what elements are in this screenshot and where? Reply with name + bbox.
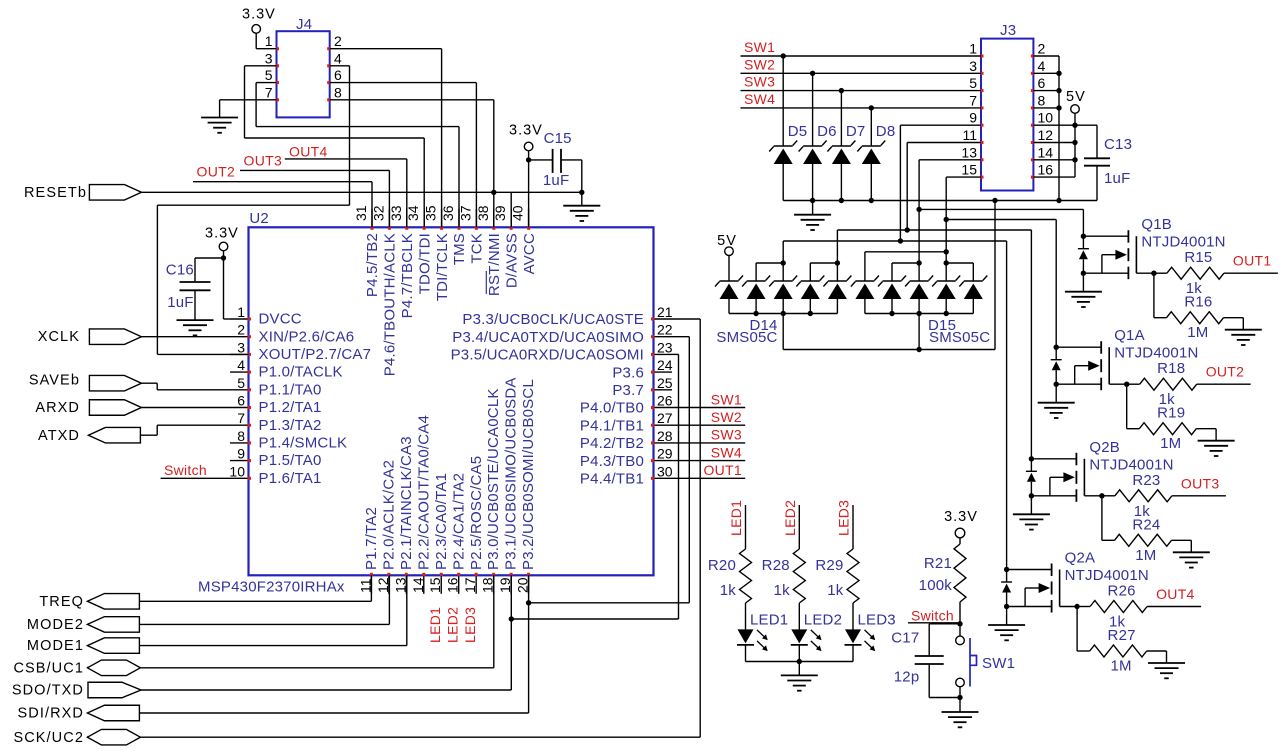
SW1 label — [982, 655, 1015, 672]
J4 pin numbers — [265, 33, 342, 101]
svg-text:30: 30 — [657, 463, 673, 479]
Q2A value NTJD4001N — [1065, 567, 1149, 584]
net label LED2 rotated — [445, 607, 461, 643]
svg-text:2: 2 — [334, 33, 342, 49]
U2 bottom pins 11-20: stubs, numbers, names — [357, 377, 537, 593]
svg-text:R28: R28 — [762, 557, 790, 574]
svg-text:3: 3 — [265, 50, 273, 66]
IC U2 MSP430F2370 body — [249, 227, 654, 575]
svg-text:C17: C17 — [891, 630, 919, 647]
junction SW4 to D8 — [869, 105, 874, 110]
svg-text:16: 16 — [445, 577, 461, 593]
ground at R24 — [1173, 552, 1210, 567]
wire J3 pin4 — [1033, 72, 1059, 74]
R29 labels — [815, 557, 843, 599]
capacitor C13 label — [1104, 136, 1132, 153]
3.3V power symbol at R21 — [955, 528, 965, 538]
svg-text:26: 26 — [657, 393, 673, 409]
wire D15-3 riser / J3 pin13 net — [916, 160, 921, 281]
svg-text:SW4: SW4 — [744, 91, 775, 107]
wire LED2 to R28 — [798, 505, 800, 549]
wire C13 top — [1096, 125, 1098, 158]
J3 reference label — [1000, 22, 1016, 39]
U2 reference label — [249, 210, 269, 227]
svg-text:P4.1/TB1: P4.1/TB1 — [580, 417, 644, 434]
junction Q1A gate node — [1124, 382, 1129, 387]
wire R24 to ground — [1172, 540, 1192, 552]
wire D14-3 riser — [782, 241, 784, 281]
ground at C16 — [177, 290, 214, 335]
wire SW2 down to D6 — [812, 73, 814, 146]
svg-text:1M: 1M — [1187, 324, 1208, 341]
Q1A label — [1114, 327, 1145, 344]
svg-text:3.3V: 3.3V — [509, 123, 543, 139]
TVS diode D6 — [799, 141, 827, 165]
wire D14-4 riser — [810, 260, 840, 281]
junction Q2B drain — [1029, 456, 1034, 461]
C17 value 12p — [894, 669, 920, 686]
svg-text:SW3: SW3 — [744, 74, 775, 90]
Q1B value NTJD4001N — [1141, 234, 1225, 251]
wire Q1A drain to ESD diode — [1055, 347, 1057, 360]
svg-text:P2.4/CA1/TA2: P2.4/CA1/TA2 — [450, 473, 467, 570]
wire U2 pin11 down — [370, 575, 372, 601]
svg-text:SW4: SW4 — [711, 444, 742, 460]
svg-text:3: 3 — [969, 58, 977, 74]
svg-text:Q1B: Q1B — [1141, 216, 1172, 233]
ground symbol at rail — [794, 201, 831, 231]
svg-text:25: 25 — [657, 375, 673, 391]
svg-text:P4.3/TB0: P4.3/TB0 — [580, 453, 644, 470]
flag MODE1 — [27, 638, 139, 654]
svg-text:OUT2: OUT2 — [197, 164, 236, 180]
R23 value 1k — [1134, 503, 1151, 520]
wire U2 pin20 down — [528, 575, 530, 713]
svg-text:P4.5/TB2: P4.5/TB2 — [364, 233, 381, 297]
wire 5V down to pin16 — [1074, 113, 1076, 177]
3.3V power symbol at J4 — [252, 25, 261, 34]
wire J4 pin3 to U2 pin34 — [245, 66, 425, 228]
svg-text:Q2A: Q2A — [1065, 550, 1096, 567]
junction Q2A source — [1004, 604, 1009, 609]
wire to R27 — [1077, 607, 1090, 652]
svg-text:P1.4/SMCLK: P1.4/SMCLK — [259, 435, 348, 452]
wire 3.3V to R21 — [959, 538, 961, 544]
svg-text:RST/NMI: RST/NMI — [486, 233, 503, 296]
svg-text:35: 35 — [423, 205, 439, 221]
svg-text:16: 16 — [1038, 162, 1054, 178]
resistor R19 — [1139, 423, 1196, 435]
wire to R19 — [1127, 384, 1140, 429]
svg-text:ATXD: ATXD — [38, 428, 80, 444]
svg-text:8: 8 — [1038, 92, 1046, 108]
ground at Q2A — [988, 607, 1025, 641]
R23 label — [1132, 472, 1160, 489]
C15 value 1uF — [543, 172, 569, 189]
svg-text:SCK/UC2: SCK/UC2 — [13, 730, 84, 746]
J3 pin numbers — [961, 41, 1053, 179]
wire D15-1 riser — [865, 249, 949, 281]
svg-text:P2.2/CAOUT/TA0/CA4: P2.2/CAOUT/TA0/CA4 — [415, 415, 432, 570]
junction at pin38 vertical — [491, 190, 496, 195]
svg-text:P4.7/TBCLK: P4.7/TBCLK — [399, 233, 416, 318]
svg-text:3.3V: 3.3V — [205, 226, 239, 242]
svg-text:TREQ: TREQ — [39, 594, 84, 610]
svg-text:TDI/TCLK: TDI/TCLK — [434, 233, 451, 301]
wire node to R26 — [1077, 606, 1090, 608]
flag MODE2 — [27, 617, 139, 633]
svg-text:MODE1: MODE1 — [27, 638, 84, 654]
5V power symbol at D14 — [725, 247, 734, 256]
junction Q2A drain — [1004, 567, 1009, 572]
svg-text:OUT3: OUT3 — [1181, 475, 1220, 491]
net label OUT3 wire to U2 pin32 — [240, 152, 389, 227]
svg-text:SMS05C: SMS05C — [929, 329, 990, 346]
capacitor C15 label — [544, 130, 572, 147]
ground at J4 pin7 — [201, 118, 238, 133]
junction SW2 to D6 — [810, 71, 815, 76]
svg-text:4: 4 — [237, 357, 245, 373]
svg-text:34: 34 — [405, 205, 421, 221]
ESD diode at Q1A — [1051, 360, 1062, 371]
wire R18 to OUT2 — [1197, 383, 1251, 385]
svg-text:LED2: LED2 — [782, 500, 798, 536]
wire bus to Q2A drain — [783, 238, 1006, 569]
wire J4 pin4 to U2 pin3 XOUT — [157, 66, 349, 355]
D6 label — [817, 123, 837, 140]
input flag ARXD — [35, 400, 141, 416]
svg-text:10: 10 — [229, 463, 245, 479]
wire J3 pin2 bus down — [1033, 56, 1059, 201]
svg-text:LED2: LED2 — [445, 607, 461, 643]
svg-text:1: 1 — [265, 33, 273, 49]
transistor Q1B NTJD4001N — [1083, 230, 1154, 279]
wire R15 to OUT1 — [1224, 272, 1278, 274]
resistor R24 — [1115, 534, 1172, 546]
svg-text:R18: R18 — [1157, 360, 1185, 377]
junction SW1 to D5 — [781, 53, 786, 58]
svg-text:Q1A: Q1A — [1114, 327, 1145, 344]
net label OUT1 — [1233, 253, 1272, 269]
svg-text:MSP430F2370IRHAx: MSP430F2370IRHAx — [198, 579, 345, 596]
resistor R27 — [1090, 645, 1147, 657]
net label OUT2 wire to U2 pin31 — [193, 164, 372, 228]
resistor R26 — [1090, 601, 1147, 613]
svg-text:TCK: TCK — [469, 233, 486, 264]
transistor Q1A NTJD4001N — [1056, 341, 1127, 390]
wire R26 to OUT4 — [1147, 606, 1201, 608]
junction Q1A source — [1054, 382, 1059, 387]
svg-text:14: 14 — [410, 577, 426, 593]
wire J3 pin12 — [1033, 142, 1075, 144]
svg-text:AVCC: AVCC — [521, 233, 538, 274]
svg-text:21: 21 — [657, 304, 673, 320]
junction at ground node — [957, 695, 962, 700]
svg-text:D6: D6 — [817, 123, 837, 140]
TVS array D15 diodes — [851, 276, 987, 300]
pushbutton SW1 — [956, 636, 977, 687]
wire J3 pin10 to C13 — [1033, 124, 1097, 126]
svg-text:6: 6 — [237, 393, 245, 409]
svg-text:LED1: LED1 — [427, 607, 443, 643]
junction C16/DVCC — [221, 255, 226, 260]
wire J4 pin6 to U2 pin37 — [330, 83, 477, 228]
input flag SAVEb — [29, 372, 142, 391]
svg-text:31: 31 — [353, 205, 369, 221]
LED3 label — [858, 612, 896, 629]
wire to R24 — [1102, 496, 1115, 541]
svg-text:1: 1 — [969, 41, 977, 57]
svg-text:D8: D8 — [876, 123, 896, 140]
R26 value 1k — [1109, 614, 1126, 631]
svg-text:24: 24 — [657, 357, 673, 373]
svg-text:P3.3/UCB0CLK/UCA0STE: P3.3/UCB0CLK/UCA0STE — [462, 311, 644, 328]
svg-text:CSB/UC1: CSB/UC1 — [13, 660, 84, 676]
svg-text:13: 13 — [392, 577, 408, 593]
junction pin20 branch — [526, 600, 531, 605]
svg-text:P3.5/UCA0RXD/UCA0SOMI: P3.5/UCA0RXD/UCA0SOMI — [451, 347, 644, 364]
transistor Q2B NTJD4001N — [1031, 453, 1102, 502]
wire LED3 to rail — [852, 646, 854, 662]
net label OUT2 — [1206, 364, 1245, 380]
svg-text:12p: 12p — [894, 669, 920, 686]
net label LED1 rotated — [427, 607, 443, 643]
net label SW3 at U2 pin28 — [672, 427, 745, 443]
wire J3 pin8 — [1033, 107, 1059, 109]
resistor R29 — [847, 549, 859, 603]
wire D14-5 riser — [836, 230, 838, 281]
svg-text:Switch: Switch — [911, 608, 954, 624]
svg-text:SW1: SW1 — [711, 391, 742, 407]
svg-text:P1.0/TACLK: P1.0/TACLK — [259, 364, 343, 381]
junction Switch node — [957, 621, 962, 626]
svg-text:P4.0/TB0: P4.0/TB0 — [580, 400, 644, 417]
LED LED1 — [737, 629, 768, 651]
wire Q1B drain to ESD diode — [1082, 236, 1084, 249]
svg-text:XIN/P2.6/CA6: XIN/P2.6/CA6 — [259, 328, 355, 345]
resistor R16 — [1167, 312, 1224, 324]
svg-text:P2.3/CA0/TA1: P2.3/CA0/TA1 — [433, 473, 450, 570]
svg-text:P1.6/TA1: P1.6/TA1 — [259, 470, 322, 487]
wire bus to Q1B drain — [919, 209, 1083, 236]
svg-text:10: 10 — [1038, 110, 1054, 126]
R20 labels — [708, 557, 736, 599]
svg-text:1: 1 — [237, 304, 245, 320]
svg-text:XOUT/P2.7/CA7: XOUT/P2.7/CA7 — [259, 346, 372, 363]
ground at Q2B — [1013, 496, 1050, 530]
svg-text:13: 13 — [961, 144, 977, 160]
svg-text:1uF: 1uF — [1104, 170, 1130, 187]
svg-text:ARXD: ARXD — [35, 400, 80, 416]
junction Q2B gate node — [1099, 493, 1104, 498]
junction LED rail — [797, 659, 802, 664]
capacitor C15 — [553, 149, 561, 173]
3.3V power symbol at C15 — [524, 142, 533, 151]
wire LED2 to rail — [798, 646, 800, 662]
3.3V label at C15 — [509, 123, 543, 139]
wire U2 pin18 down — [493, 575, 495, 668]
junction pin19 branch — [509, 616, 514, 621]
wire D7 anode to ground rail — [840, 164, 842, 201]
svg-text:P1.5/TA0: P1.5/TA0 — [259, 452, 322, 469]
U2 pin38 RST overline — [485, 271, 487, 294]
svg-text:SW1: SW1 — [982, 655, 1015, 672]
wire LED1 to R20 — [745, 505, 747, 549]
wire TREQ — [139, 600, 371, 602]
svg-text:LED2: LED2 — [804, 612, 842, 629]
svg-text:LED3: LED3 — [858, 612, 896, 629]
svg-text:P3.4/UCA0TXD/UCA0SIMO: P3.4/UCA0TXD/UCA0SIMO — [452, 329, 644, 346]
wire R29 to LED3 — [852, 603, 854, 629]
svg-text:5: 5 — [265, 67, 273, 83]
svg-text:DVCC: DVCC — [259, 311, 302, 328]
5V label at J3 — [1066, 89, 1086, 105]
wire R27 to ground — [1147, 651, 1167, 663]
TVS diode D5 — [769, 141, 797, 165]
svg-text:P2.0/ACLK/CA2: P2.0/ACLK/CA2 — [380, 460, 397, 570]
junction pin14 — [1072, 157, 1077, 162]
flag SDI/RXD — [17, 705, 139, 721]
wire D15 anode rail — [865, 299, 973, 316]
junction 3.3V/C15 — [526, 157, 531, 162]
resistor R20 — [740, 549, 752, 603]
svg-text:2: 2 — [237, 322, 245, 338]
wire D15-5 riser — [946, 263, 973, 281]
R15 value 1k — [1186, 280, 1203, 297]
svg-text:7: 7 — [969, 92, 977, 108]
wire R28 to LED2 — [798, 603, 800, 629]
net label Switch at R21 — [908, 608, 958, 624]
svg-text:MODE2: MODE2 — [27, 617, 84, 633]
D14 label — [749, 317, 777, 334]
svg-text:3: 3 — [237, 339, 245, 355]
svg-text:D7: D7 — [846, 123, 866, 140]
R19 value 1M — [1160, 435, 1181, 452]
output flag ATXD — [38, 427, 140, 444]
wire node to R23 — [1102, 495, 1115, 497]
wire 3.3V to U2 pin1 DVCC — [224, 251, 231, 319]
wire R16 to ground — [1224, 318, 1244, 330]
R21 labels — [919, 555, 953, 594]
svg-text:5V: 5V — [717, 233, 737, 249]
svg-text:OUT1: OUT1 — [1233, 253, 1272, 269]
ground at Q1A — [1038, 384, 1075, 418]
svg-text:15: 15 — [427, 577, 443, 593]
TVS diode D7 — [827, 141, 855, 165]
wire U2 pin22 right — [672, 336, 689, 338]
wire to R16 — [1154, 273, 1167, 318]
wire J3 pin14 — [1033, 159, 1075, 161]
junction pin12 — [1072, 140, 1077, 145]
svg-text:36: 36 — [440, 205, 456, 221]
resistor R15 — [1167, 267, 1224, 279]
capacitor C16 label — [166, 262, 194, 279]
wire node to R18 — [1127, 383, 1140, 385]
R15 label — [1184, 249, 1212, 266]
svg-text:R27: R27 — [1108, 627, 1136, 644]
ground at LEDs — [781, 662, 818, 691]
svg-text:J3: J3 — [1000, 22, 1016, 39]
svg-text:XCLK: XCLK — [38, 329, 80, 345]
capacitor C16 — [180, 282, 211, 290]
junction SW3 to D7 — [839, 88, 844, 93]
D14 value SMS05C — [716, 329, 777, 346]
input flag XCLK — [38, 329, 142, 345]
U2 left pins 1-10: stubs, numbers, names — [229, 304, 371, 487]
svg-text:R20: R20 — [708, 557, 736, 574]
wire U2 pin19 down — [510, 575, 512, 690]
svg-text:TMS: TMS — [451, 233, 468, 265]
svg-text:14: 14 — [1038, 144, 1054, 160]
ESD diode at Q2A — [1001, 582, 1012, 593]
C16 value 1uF — [167, 294, 193, 311]
LED LED3 — [845, 629, 876, 651]
svg-text:Switch: Switch — [164, 462, 207, 478]
svg-text:4: 4 — [334, 50, 342, 66]
resistor R23 — [1115, 490, 1172, 502]
LED LED2 — [791, 629, 822, 651]
junction C15 to ground wire — [579, 190, 584, 195]
svg-text:4: 4 — [1038, 58, 1046, 74]
R27 label — [1108, 627, 1136, 644]
wire J3 pin9 bus — [900, 125, 981, 241]
wire to C15 left plate — [529, 159, 553, 161]
wire Q1B diode to source — [1082, 259, 1084, 273]
wire pin20 to pin22 — [529, 337, 690, 603]
wire Q2B diode to source — [1030, 482, 1032, 496]
junction Q1B source — [1081, 271, 1086, 276]
svg-text:P3.2/UCB0SOMI/UCB0SCL: P3.2/UCB0SOMI/UCB0SCL — [520, 379, 537, 570]
net label LED2 at resistor — [782, 500, 798, 536]
wire U2 pin12 down — [388, 575, 390, 624]
wire C15 right plate down — [561, 160, 582, 192]
D8 label — [876, 123, 896, 140]
flag SDO/TXD — [12, 682, 141, 698]
svg-text:NTJD4001N: NTJD4001N — [1114, 345, 1198, 362]
svg-text:1uF: 1uF — [167, 294, 193, 311]
svg-text:37: 37 — [457, 205, 473, 221]
wire Q2A diode to source — [1006, 593, 1008, 607]
ground at R16 — [1225, 330, 1262, 345]
R24 value 1M — [1135, 547, 1156, 564]
Q2A label — [1065, 550, 1096, 567]
svg-text:1k: 1k — [827, 582, 844, 599]
wire to C17 — [929, 624, 960, 656]
wire pin19 to pin23 — [511, 354, 678, 619]
svg-text:23: 23 — [657, 339, 673, 355]
Q2B value NTJD4001N — [1089, 456, 1173, 473]
wire U2 pin21 right — [672, 318, 700, 320]
svg-text:NTJD4001N: NTJD4001N — [1065, 567, 1149, 584]
wire U2 pin39 D/AVSS stub up — [510, 192, 512, 227]
wire MODE1 — [139, 645, 406, 647]
svg-text:3.3V: 3.3V — [944, 509, 978, 525]
3.3V label at C16 — [205, 226, 239, 242]
wire D6 anode to ground rail — [812, 164, 814, 201]
svg-text:Q2B: Q2B — [1089, 439, 1120, 456]
svg-text:6: 6 — [1038, 75, 1046, 91]
junction Q1B gate node — [1151, 271, 1156, 276]
svg-text:1M: 1M — [1135, 547, 1156, 564]
R27 value 1M — [1110, 658, 1131, 675]
wire C17 to ground node — [929, 664, 960, 698]
svg-text:SMS05C: SMS05C — [716, 329, 777, 346]
Q2B label — [1089, 439, 1120, 456]
svg-text:7: 7 — [237, 410, 245, 426]
wire XCLK to U2 pin2 XIN — [141, 336, 230, 338]
R16 value 1M — [1187, 324, 1208, 341]
svg-text:TDO/TDI: TDO/TDI — [416, 233, 433, 294]
